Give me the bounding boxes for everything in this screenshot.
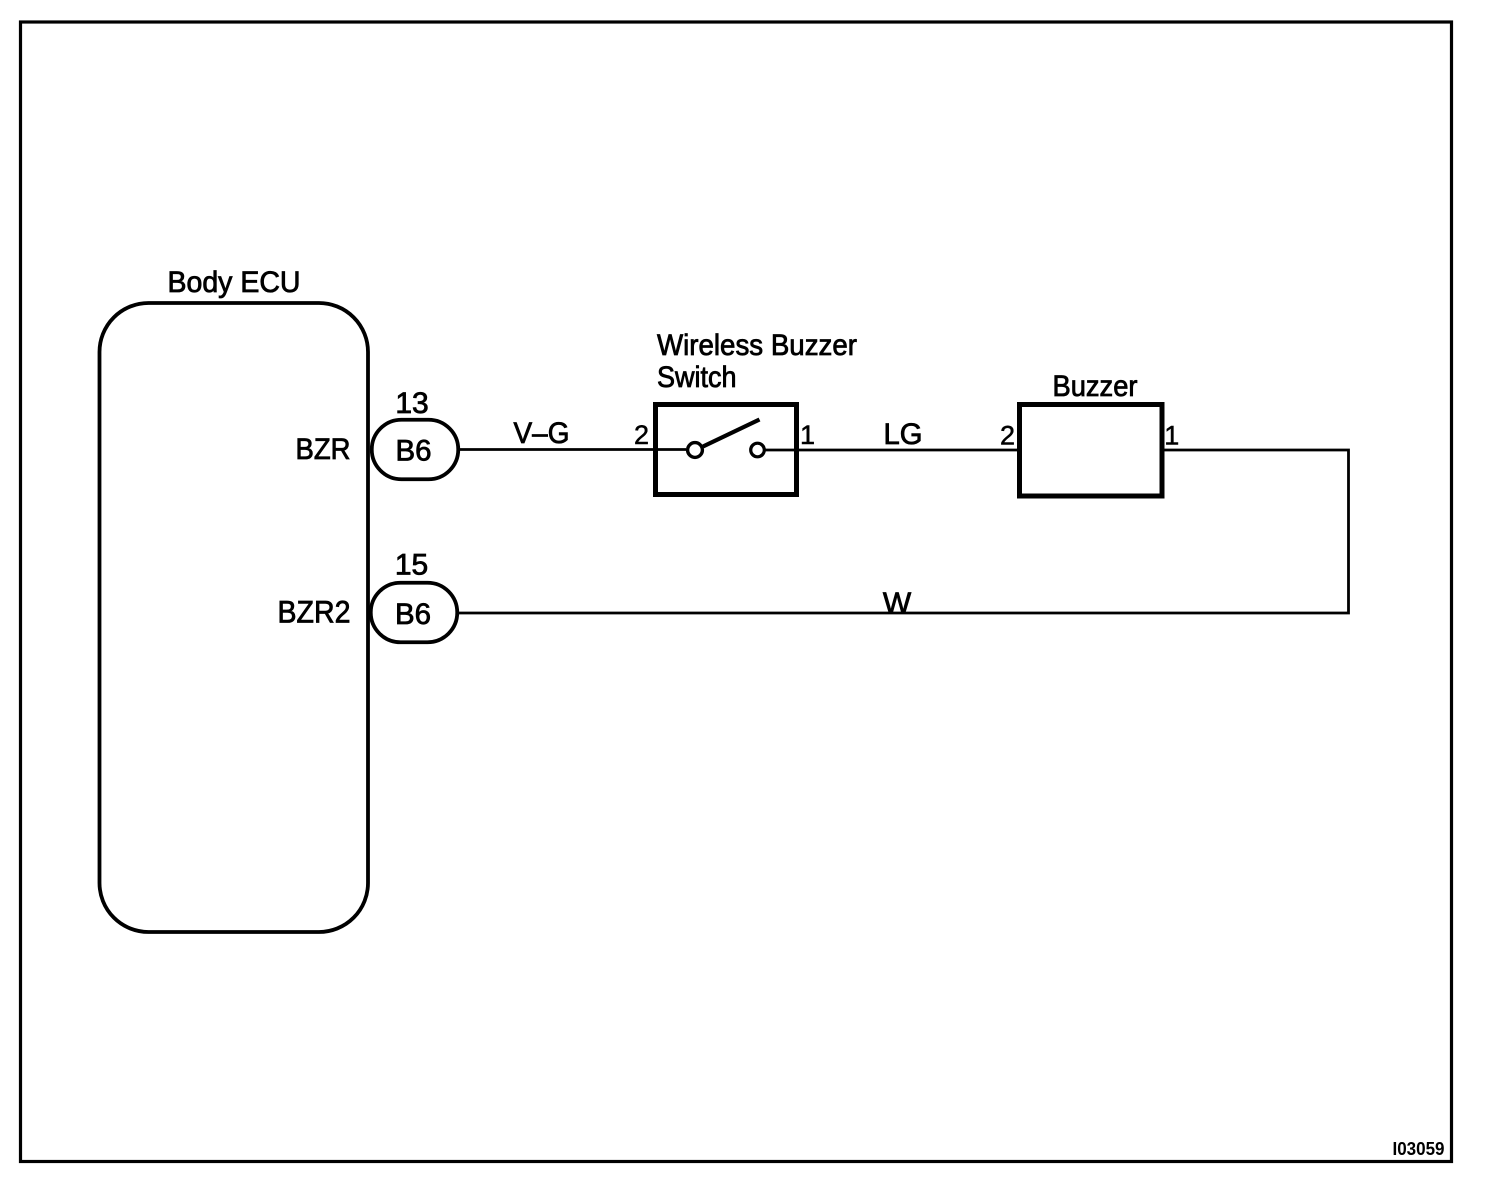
- svg-text:B6: B6: [396, 435, 432, 468]
- svg-text:2: 2: [1000, 421, 1015, 451]
- svg-text:Buzzer: Buzzer: [1053, 370, 1138, 403]
- svg-text:BZR: BZR: [296, 433, 351, 466]
- svg-text:LG: LG: [884, 418, 923, 451]
- svg-text:I03059: I03059: [1393, 1138, 1445, 1159]
- svg-text:Body ECU: Body ECU: [168, 266, 301, 299]
- svg-text:Switch: Switch: [657, 361, 737, 394]
- svg-text:BZR2: BZR2: [278, 594, 351, 630]
- svg-text:1: 1: [1164, 421, 1179, 451]
- svg-text:V–G: V–G: [514, 417, 570, 450]
- svg-text:W: W: [883, 587, 912, 620]
- svg-text:15: 15: [395, 549, 428, 582]
- svg-text:B6: B6: [395, 598, 431, 631]
- svg-text:13: 13: [395, 387, 428, 420]
- svg-text:2: 2: [634, 420, 649, 450]
- svg-text:Wireless Buzzer: Wireless Buzzer: [657, 329, 857, 362]
- svg-text:1: 1: [800, 420, 815, 450]
